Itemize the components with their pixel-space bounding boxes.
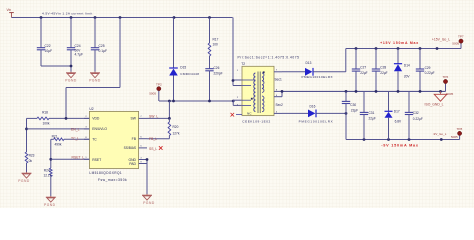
svg-text:22µF: 22µF <box>360 71 367 75</box>
svg-text:U2: U2 <box>89 107 93 111</box>
svg-text:4.7µF: 4.7µF <box>75 53 84 57</box>
svg-text:SS/BIAS: SS/BIAS <box>124 146 136 150</box>
svg-text:ISO_GND_L: ISO_GND_L <box>425 103 444 107</box>
svg-text:C32: C32 <box>413 111 419 115</box>
svg-text:FB_L: FB_L <box>149 137 157 141</box>
svg-text:+15V_Iso_L: +15V_Iso_L <box>432 37 450 41</box>
svg-text:PGND: PGND <box>18 179 30 183</box>
svg-text:Pri:Sec1:Sec2=1:1.4075:0.4075: Pri:Sec1:Sec2=1:1.4075:0.4075 <box>238 56 300 60</box>
svg-text:D15: D15 <box>180 66 186 70</box>
svg-text:0.1µF: 0.1µF <box>99 49 108 53</box>
svg-text:C24: C24 <box>75 44 81 48</box>
svg-text:SS_L: SS_L <box>149 147 157 151</box>
svg-text:Sec1: Sec1 <box>275 78 282 82</box>
svg-text:6.8V: 6.8V <box>395 120 402 124</box>
svg-text:D16: D16 <box>310 104 316 108</box>
svg-text:20V: 20V <box>404 75 411 79</box>
svg-text:10µF: 10µF <box>45 49 53 53</box>
svg-text:-9V_Iso_L: -9V_Iso_L <box>433 132 447 136</box>
svg-text:22µF: 22µF <box>351 108 358 112</box>
svg-text:TP8: TP8 <box>457 127 463 131</box>
svg-text:22µF: 22µF <box>369 117 376 121</box>
svg-text:TP2: TP2 <box>156 82 162 86</box>
svg-text:5005: 5005 <box>446 92 453 96</box>
svg-text:PGND: PGND <box>89 79 101 83</box>
svg-text:TC_L: TC_L <box>71 136 79 140</box>
svg-text:EN/UVLO: EN/UVLO <box>92 127 107 131</box>
svg-text:GND: GND <box>128 158 136 162</box>
svg-text:SW: SW <box>131 117 137 121</box>
svg-text:VDD: VDD <box>92 117 100 121</box>
svg-text:100: 100 <box>213 42 219 46</box>
svg-text:C22: C22 <box>45 44 51 48</box>
svg-text:22µF: 22µF <box>380 71 387 75</box>
svg-text:CMDD4448: CMDD4448 <box>180 72 199 76</box>
svg-text:50V: 50V <box>75 48 82 52</box>
svg-text:4.5V-45Vin 1.2A current limit: 4.5V-45Vin 1.2A current limit <box>42 12 93 16</box>
svg-text:100k: 100k <box>43 122 50 126</box>
svg-text:R23: R23 <box>29 154 35 158</box>
svg-text:PMEG10010ELRX: PMEG10010ELRX <box>302 75 334 79</box>
svg-text:R18: R18 <box>42 110 48 114</box>
svg-text:R17: R17 <box>213 38 219 42</box>
svg-text:PGND: PGND <box>44 203 56 207</box>
svg-text:499k: 499k <box>55 142 62 146</box>
svg-text:C29: C29 <box>425 66 431 70</box>
svg-text:R21: R21 <box>52 135 58 139</box>
svg-text:PGND: PGND <box>65 79 77 83</box>
svg-text:5005: 5005 <box>452 41 459 45</box>
svg-text:C25: C25 <box>99 44 105 48</box>
svg-text:D14: D14 <box>404 64 410 68</box>
svg-text:5005: 5005 <box>149 92 156 96</box>
svg-text:220pF: 220pF <box>214 71 223 75</box>
svg-text:FB: FB <box>132 137 137 141</box>
svg-text:RSET: RSET <box>92 158 101 162</box>
svg-text:R24: R24 <box>44 169 50 173</box>
svg-text:PGND: PGND <box>143 201 155 205</box>
svg-text:TC: TC <box>92 138 97 142</box>
svg-text:0.22µF: 0.22µF <box>425 71 435 75</box>
svg-text:D13: D13 <box>306 61 312 65</box>
svg-text:Sec2: Sec2 <box>276 103 283 107</box>
svg-text:Fsw_max=350k: Fsw_max=350k <box>98 178 127 182</box>
svg-text:C28: C28 <box>380 66 386 70</box>
svg-text:PMEG10010ELRX: PMEG10010ELRX <box>299 119 334 123</box>
svg-text:TP7: TP7 <box>458 34 464 38</box>
svg-text:Vin: Vin <box>7 8 12 12</box>
svg-text:PAD: PAD <box>129 162 136 166</box>
svg-text:NC: NC <box>247 111 252 115</box>
svg-text:0.22µF: 0.22µF <box>413 117 423 121</box>
svg-text:R20: R20 <box>173 125 179 129</box>
svg-text:C26: C26 <box>214 66 220 70</box>
svg-text:127k: 127k <box>173 131 180 135</box>
svg-text:C31: C31 <box>369 111 375 115</box>
svg-text:TP6: TP6 <box>443 75 449 79</box>
svg-text:D17: D17 <box>394 109 400 113</box>
svg-text:-9V 150mA Max: -9V 150mA Max <box>381 144 419 148</box>
svg-text:EN_L: EN_L <box>71 127 80 131</box>
svg-text:0k: 0k <box>29 159 33 163</box>
svg-text:C27: C27 <box>360 66 366 70</box>
svg-text:+15V 150mA Max: +15V 150mA Max <box>380 41 419 45</box>
svg-text:RSET_L: RSET_L <box>72 156 85 160</box>
svg-text:5005: 5005 <box>451 135 458 139</box>
svg-text:LM5180QDGXRQ1: LM5180QDGXRQ1 <box>89 171 122 175</box>
svg-text:T2: T2 <box>241 62 245 66</box>
svg-text:C30: C30 <box>350 103 356 107</box>
svg-text:CEEK109-1E02: CEEK109-1E02 <box>242 119 270 123</box>
